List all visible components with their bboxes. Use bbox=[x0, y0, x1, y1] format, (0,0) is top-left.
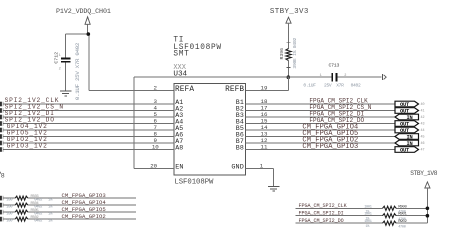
svg-text:45: 45 bbox=[421, 136, 425, 140]
svg-text:2: 2 bbox=[344, 74, 346, 78]
svg-text:19: 19 bbox=[261, 84, 268, 91]
svg-text:1: 1 bbox=[260, 162, 264, 169]
svg-text:REFB: REFB bbox=[225, 86, 244, 94]
svg-text:2: 2 bbox=[59, 67, 61, 71]
svg-text:100: 100 bbox=[6, 198, 13, 202]
svg-text:4700: 4700 bbox=[398, 225, 406, 229]
svg-text:R396: R396 bbox=[279, 48, 285, 60]
svg-text:390E 1% 0402: 390E 1% 0402 bbox=[292, 37, 298, 68]
svg-text:C713: C713 bbox=[329, 62, 340, 68]
svg-text:100: 100 bbox=[6, 212, 13, 216]
svg-text:41: 41 bbox=[421, 110, 425, 114]
svg-text:43: 43 bbox=[421, 123, 425, 127]
svg-text:11: 11 bbox=[261, 143, 268, 150]
svg-text:REFA: REFA bbox=[175, 86, 194, 94]
svg-text:SMT: SMT bbox=[173, 50, 189, 58]
svg-text:X7R: X7R bbox=[336, 82, 344, 88]
svg-text:LSF0108PW: LSF0108PW bbox=[174, 179, 214, 187]
svg-text:0402: 0402 bbox=[34, 220, 43, 224]
svg-text:P1V2_VDDQ_CH01: P1V2_VDDQ_CH01 bbox=[56, 8, 111, 16]
svg-text:40: 40 bbox=[421, 103, 425, 107]
svg-text:CM_FPGA_GPIO3: CM_FPGA_GPIO3 bbox=[302, 143, 358, 151]
svg-text:U34: U34 bbox=[173, 70, 187, 78]
svg-text:OUT: OUT bbox=[400, 148, 410, 154]
svg-text:R902: R902 bbox=[398, 220, 407, 224]
svg-text:FPGA_CM_SPI2_DI: FPGA_CM_SPI2_DI bbox=[299, 210, 344, 216]
svg-text:CM_FPGA_GPIO2: CM_FPGA_GPIO2 bbox=[62, 213, 106, 220]
svg-text:10: 10 bbox=[152, 143, 159, 150]
svg-text:8: 8 bbox=[1, 173, 5, 180]
svg-text:1001: 1001 bbox=[364, 205, 372, 209]
svg-text:GPIO3_1V2: GPIO3_1V2 bbox=[7, 143, 48, 150]
svg-text:100: 100 bbox=[6, 205, 13, 209]
svg-text:44: 44 bbox=[421, 129, 425, 133]
svg-text:GND: GND bbox=[231, 164, 244, 172]
svg-text:1: 1 bbox=[59, 54, 61, 58]
svg-text:CM_FPGA_GPIO4: CM_FPGA_GPIO4 bbox=[62, 199, 107, 206]
svg-text:FPGA_CM_SPI2_DO: FPGA_CM_SPI2_DO bbox=[299, 218, 344, 224]
svg-text:R901: R901 bbox=[398, 213, 407, 217]
svg-text:B8: B8 bbox=[236, 145, 244, 152]
svg-text:20: 20 bbox=[150, 162, 157, 169]
svg-text:FPGA_CM_SPI2_CLK: FPGA_CM_SPI2_CLK bbox=[299, 203, 348, 209]
svg-text:0.1UF: 0.1UF bbox=[303, 82, 316, 88]
svg-text:CM_FPGA_GPIO3: CM_FPGA_GPIO3 bbox=[62, 192, 106, 199]
svg-text:1001: 1001 bbox=[364, 220, 372, 224]
svg-text:47: 47 bbox=[421, 149, 425, 153]
svg-text:A8: A8 bbox=[175, 145, 183, 152]
svg-text:2: 2 bbox=[154, 84, 158, 91]
svg-text:STBY_3V3: STBY_3V3 bbox=[270, 8, 309, 16]
svg-text:42: 42 bbox=[421, 116, 425, 120]
svg-text:0.1UF 25V X7R 0402: 0.1UF 25V X7R 0402 bbox=[74, 42, 81, 100]
svg-text:R900: R900 bbox=[398, 205, 407, 209]
svg-text:0402: 0402 bbox=[351, 82, 361, 88]
svg-text:25V: 25V bbox=[324, 82, 332, 88]
svg-text:46: 46 bbox=[421, 142, 425, 146]
svg-text:100: 100 bbox=[6, 219, 13, 223]
svg-text:CM_FPGA_GPIO5: CM_FPGA_GPIO5 bbox=[62, 206, 106, 213]
svg-text:1: 1 bbox=[320, 74, 322, 78]
svg-text:EN: EN bbox=[175, 164, 183, 172]
svg-text:STBY_1V8: STBY_1V8 bbox=[410, 170, 438, 177]
svg-text:1001: 1001 bbox=[364, 213, 372, 217]
